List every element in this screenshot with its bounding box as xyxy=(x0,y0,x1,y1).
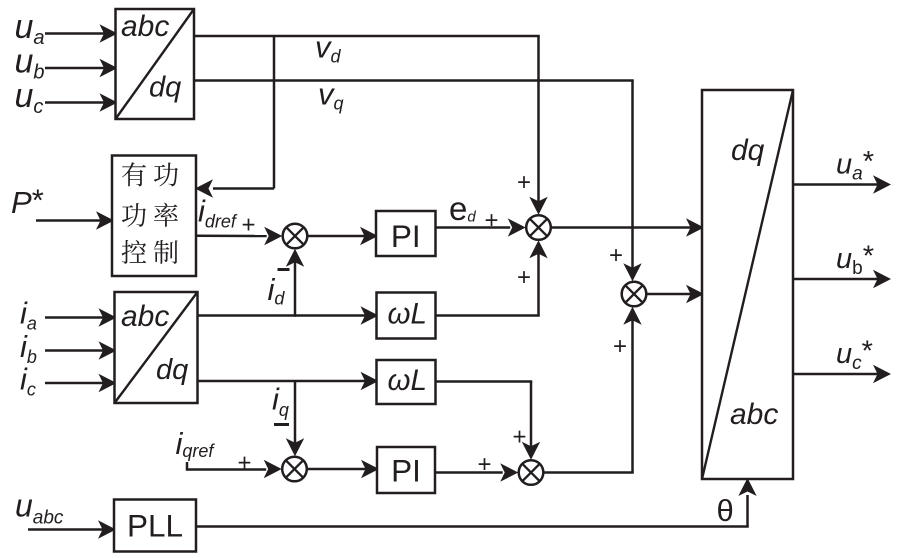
wire J1 to PI1 xyxy=(307,227,378,245)
svg-text:+: + xyxy=(241,211,255,238)
wire u_c* output xyxy=(793,365,891,383)
svg-text:+: + xyxy=(609,242,623,269)
wire v_d tap to power-control block xyxy=(195,36,274,198)
summing junction J4 xyxy=(282,457,307,482)
wire P* input xyxy=(36,211,114,229)
wire i_b input xyxy=(45,341,117,359)
svg-text:θ: θ xyxy=(717,493,734,528)
wire i_q tap down to J4 xyxy=(286,381,304,456)
svg-text:+: + xyxy=(517,169,531,196)
wire J2 to dq/abc block xyxy=(551,218,704,236)
wire v_q from U1 to sum J3 xyxy=(194,81,642,282)
block wL2 cross-coupling xyxy=(377,360,436,404)
wire J5 up to sum J3 xyxy=(543,307,641,473)
svg-text:dq: dq xyxy=(156,354,188,386)
svg-text:dq: dq xyxy=(149,72,181,104)
block U3 abc/dq current transform xyxy=(115,292,198,403)
wire u_abc input to PLL xyxy=(28,520,116,538)
wire u_c input xyxy=(45,93,118,111)
summing junction J2 xyxy=(526,215,551,240)
svg-text:ωL: ωL xyxy=(388,298,427,331)
wire PI1 to sum J2 xyxy=(436,218,526,236)
svg-text:+: + xyxy=(512,423,526,450)
wire J3 to dq/abc block xyxy=(646,285,704,303)
svg-text:+: + xyxy=(237,449,251,476)
svg-text:PLL: PLL xyxy=(127,508,183,544)
wire i_a input xyxy=(45,308,117,326)
wire i_qref input xyxy=(187,460,282,478)
wire PI2 to sum J5 xyxy=(435,463,518,481)
svg-text:+: + xyxy=(484,207,498,234)
svg-text:+: + xyxy=(477,451,491,478)
wire i_q row to wL2 xyxy=(198,372,379,390)
wire i_d row to wL1 xyxy=(198,306,379,324)
svg-text:PI: PI xyxy=(391,453,421,489)
wire v_d from U1 to sum J2 xyxy=(194,36,548,215)
block wL1 cross-coupling xyxy=(377,293,436,339)
svg-text:abc: abc xyxy=(121,300,169,333)
svg-text:ωL: ωL xyxy=(388,364,427,397)
svg-text:+: + xyxy=(613,333,627,360)
wire wL2 to sum J5 from above xyxy=(436,382,541,460)
label minus at J4 top xyxy=(274,423,289,426)
wire theta from PLL to dq/abc block xyxy=(196,478,757,527)
wire i_dref to sum J1 xyxy=(196,227,282,245)
summing junction J1 xyxy=(283,224,308,249)
block U2 active power control (有功功率控制) xyxy=(112,156,196,277)
wire i_d tap up to J1 xyxy=(286,249,304,317)
wire u_b input xyxy=(45,59,118,77)
wire wL1 to sum J2 from below xyxy=(436,240,548,315)
block U4 dq/abc inverse transform xyxy=(702,90,793,479)
svg-text:+: + xyxy=(517,264,531,291)
wire u_b* output xyxy=(793,270,891,288)
wire u_a input xyxy=(45,24,118,42)
wire J4 to PI2 xyxy=(307,460,379,478)
block U1 abc/dq voltage transform xyxy=(116,9,195,119)
svg-text:dq: dq xyxy=(731,134,765,167)
block PI2 q-axis current regulator xyxy=(377,447,435,493)
block PLL phase-locked loop xyxy=(114,500,196,552)
svg-text:P*: P* xyxy=(11,183,44,221)
summing junction J5 xyxy=(519,460,544,485)
wire u_a* output xyxy=(793,175,891,193)
svg-text:abc: abc xyxy=(121,10,169,43)
wire i_c input xyxy=(45,374,117,392)
svg-text:abc: abc xyxy=(730,398,778,431)
svg-text:PI: PI xyxy=(391,218,421,254)
block PI1 d-axis current regulator xyxy=(376,211,436,256)
label minus at J1 bottom xyxy=(278,268,290,271)
summing junction J3 xyxy=(622,282,647,307)
